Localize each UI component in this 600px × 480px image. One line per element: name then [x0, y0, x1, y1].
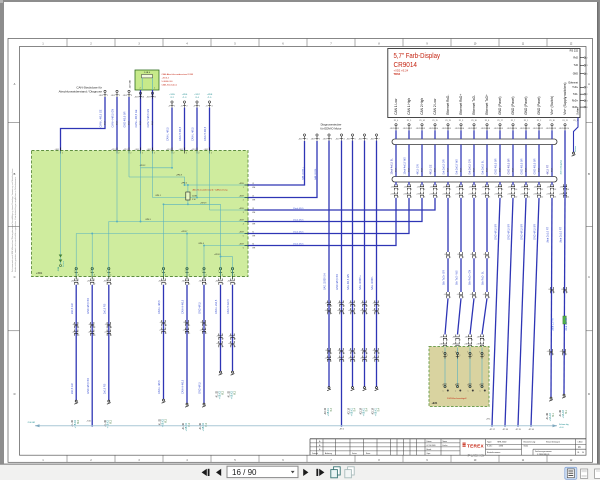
svg-text:3: 3 [199, 105, 200, 107]
svg-text:1: 1 [554, 292, 555, 294]
svg-text:2: 2 [142, 152, 143, 154]
inline connector pair 2 [360, 308, 368, 315]
svg-text:Schirm: Schirm [62, 261, 65, 267]
wire below pair col 3 [421, 197, 423, 200]
svg-text:+XP4.7: +XP4.7 [181, 231, 187, 233]
svg-text:3: 3 [331, 305, 332, 307]
svg-text:-X7.17: -X7.17 [489, 429, 495, 431]
svg-text:4/0,5: 4/0,5 [105, 121, 107, 125]
connector -XD7:2 pin [311, 134, 320, 141]
inline connector pair 4 [348, 356, 356, 363]
connector +XD5 pin [168, 101, 175, 108]
svg-text:-XD2: -XD2 [546, 128, 550, 130]
target labels [348, 407, 357, 416]
svg-text:CAN-H 4/0,5: CAN-H 4/0,5 [204, 126, 207, 141]
svg-text:4/0,5: 4/0,5 [552, 168, 554, 172]
target labels [372, 407, 381, 416]
inline connector pair 4 [337, 356, 345, 363]
ruler column ticks [67, 39, 547, 463]
svg-text:4/0,5: 4/0,5 [461, 168, 463, 172]
svg-text:2: 2 [154, 152, 155, 154]
inline connector pair col 8 [229, 334, 236, 341]
svg-text:+XD1: +XD1 [166, 149, 171, 151]
diagnostic wire col 7 [376, 141, 378, 387]
svg-text:+XD1: +XD1 [36, 272, 43, 275]
inline connector pair 2 col 2 [88, 330, 97, 337]
display lower pin pair b col 12 [533, 192, 543, 199]
svg-text:CAN-L 4/0,5: CAN-L 4/0,5 [158, 380, 161, 394]
svg-text:1 W: 1 W [192, 199, 196, 201]
svg-text:4: 4 [344, 353, 345, 355]
svg-text:+XD9: +XD9 [239, 183, 245, 185]
display pin 4 [429, 124, 438, 131]
svg-text:SAE J1939 +: SAE J1939 + [359, 275, 362, 290]
svg-text:15raf 4/0,5: 15raf 4/0,5 [293, 218, 304, 221]
svg-text:CAN 1 Low: CAN 1 Low [394, 98, 398, 115]
svg-text:+XD9: +XD9 [239, 196, 245, 198]
svg-text:-T.06: -T.06 [86, 421, 90, 423]
svg-text:4/0,5: 4/0,5 [152, 121, 154, 125]
svg-text:Eth TxD+ OR: Eth TxD+ OR [443, 270, 446, 285]
svg-text:RJ45-Buchsenabgriff: RJ45-Buchsenabgriff [447, 397, 467, 400]
svg-text:2: 2 [460, 339, 461, 341]
svg-text:CAN-H 4/0,5 GN: CAN-H 4/0,5 GN [147, 109, 150, 128]
wire end symbol [202, 403, 206, 407]
display lower pin pair b col 11 [520, 192, 530, 199]
svg-text:CAN-H 2x0,5: CAN-H 2x0,5 [227, 299, 230, 314]
svg-text:2: 2 [187, 105, 188, 107]
box top edge pins [55, 148, 212, 155]
svg-text:4: 4 [110, 274, 111, 276]
svg-text:+XD1: +XD1 [147, 149, 152, 151]
svg-text:5: 5 [355, 353, 356, 355]
svg-text:X1_7: X1_7 [511, 120, 515, 122]
svg-text:4: 4 [344, 305, 345, 307]
wire CAN bus to display 3 [248, 198, 409, 233]
svg-text:6: 6 [367, 353, 368, 355]
previous page button [216, 469, 221, 476]
svg-text:/7.4: /7.4 [365, 407, 368, 412]
bus right label [559, 424, 568, 429]
connector +XD6 pin [181, 101, 188, 108]
svg-text:CAN-L 4/0,5 GE: CAN-L 4/0,5 GE [135, 109, 138, 127]
svg-text:5: 5 [587, 74, 588, 76]
svg-text:GND 4/0,5: GND 4/0,5 [199, 382, 202, 394]
svg-text:/9.2: /9.2 [221, 390, 224, 395]
first page button [202, 469, 210, 476]
connector pair below box col 6 [199, 279, 208, 286]
svg-text:2x0,5 RS: 2x0,5 RS [103, 303, 106, 314]
svg-text:+XD1: +XD1 [191, 149, 196, 151]
svg-text:TxD: TxD [574, 64, 579, 67]
svg-text:Steuerleitungen: Steuerleitungen [546, 440, 560, 443]
svg-text:4: 4 [166, 325, 167, 327]
wire end symbol [327, 387, 331, 391]
svg-text:3: 3 [472, 339, 473, 341]
svg-text:2: 2 [130, 152, 131, 154]
inline connector pair [483, 252, 490, 259]
shield mark in box [58, 253, 65, 272]
window top-left notch [0, 0, 3, 3]
wire from terminator [152, 90, 154, 151]
svg-text:10raf 4x0,5 WS: 10raf 4x0,5 WS [404, 157, 407, 175]
svg-text:-XD1: -XD1 [111, 95, 115, 97]
connector -XD7:4 pin [335, 134, 344, 141]
svg-text:Ethernet RxD+: Ethernet RxD+ [459, 94, 463, 115]
wire below pair col 4 [434, 197, 436, 200]
svg-text:CAN-L 2x0,5: CAN-L 2x0,5 [215, 299, 218, 314]
svg-text:Ubat 2x1,0 RT: Ubat 2x1,0 RT [560, 226, 563, 243]
shield bus [35, 425, 557, 427]
svg-text:-XD7: -XD7 [298, 138, 302, 140]
svg-text:6: 6 [206, 325, 207, 327]
svg-text:7: 7 [476, 196, 477, 198]
svg-text:4: 4 [437, 128, 438, 130]
svg-text:1: 1 [174, 105, 175, 107]
svg-text:CAN-H 4/0,5: CAN-H 4/0,5 [182, 299, 185, 314]
wire CAN bus to display 4 [248, 198, 396, 245]
svg-text:-XD2: -XD2 [507, 128, 511, 130]
display pin 10 [507, 124, 517, 131]
svg-text:FUCHS: FUCHS [468, 453, 485, 458]
svg-text:4/0,5: 4/0,5 [526, 168, 528, 172]
display wire seg col 4 [434, 130, 436, 139]
terminator box -R CAN [135, 70, 159, 90]
svg-text:SAE 4/0,5 WS: SAE 4/0,5 WS [347, 274, 350, 290]
svg-text:Abschlusswiderstand / CAN-Leit: Abschlusswiderstand / CAN-Leitung [193, 189, 229, 192]
display lower pin pair col 8 [482, 184, 490, 191]
svg-text:2: 2 [62, 152, 63, 154]
target labels [360, 407, 369, 416]
supply wire 1 [551, 198, 552, 397]
connector -XD7:3 pin [323, 134, 332, 141]
svg-text:-X7.18: -X7.18 [502, 429, 508, 431]
svg-text:CR9014: CR9014 [394, 60, 418, 69]
svg-text:-XD2: -XD2 [559, 128, 563, 130]
svg-text:120R: 120R [192, 196, 197, 198]
connector +XD8 pin [206, 101, 213, 108]
distribution box internal wiring [61, 151, 249, 276]
svg-text:+XD5: +XD5 [169, 94, 175, 96]
wire below box col 8 [232, 285, 234, 371]
inline connector pair 3 [361, 348, 368, 355]
target labels [71, 419, 80, 428]
svg-text:10: 10 [515, 189, 517, 191]
display pin 1 [390, 124, 399, 131]
svg-text:-XD7: -XD7 [323, 138, 327, 140]
svg-text:D: D [14, 392, 16, 396]
svg-text:Ethernet: Ethernet [569, 82, 579, 85]
svg-text:2: 2 [587, 57, 588, 59]
svg-text:2: 2 [186, 152, 187, 154]
svg-text:b: b [344, 313, 345, 315]
svg-text:/7.4: /7.4 [353, 407, 356, 412]
svg-text:4/0,5: 4/0,5 [448, 168, 450, 172]
inline connector pair col 1 [72, 322, 79, 329]
svg-text:-XD2: -XD2 [442, 128, 446, 130]
svg-text:-XD2: -XD2 [429, 128, 433, 130]
wire below box col 5 [186, 285, 188, 403]
svg-text:1: 1 [467, 352, 468, 354]
display lower pin pair b col 2 [403, 192, 412, 199]
inline connector pair2 [483, 292, 491, 299]
svg-text:4x0,5 (Supply): 4x0,5 (Supply) [561, 160, 563, 174]
svg-text:GND 4/0,5 BR: GND 4/0,5 BR [521, 158, 524, 174]
connector pair below box col 2 [87, 279, 96, 286]
svg-text:2: 2 [154, 88, 155, 90]
svg-text:4/0,5 RT: 4/0,5 RT [547, 164, 550, 174]
olive entry pair [477, 335, 485, 342]
svg-text:7: 7 [476, 189, 477, 191]
connector pair below box col 7 [215, 279, 224, 286]
svg-text:GND 4/0,5 BR: GND 4/0,5 BR [534, 224, 537, 240]
display lower pin pair b col 6 [455, 192, 464, 199]
svg-text:1: 1 [398, 128, 399, 130]
svg-text:Bauteilnummer: Bauteilnummer [487, 451, 501, 454]
svg-text:2: 2 [319, 138, 320, 140]
svg-text:Vin+ (Switch): Vin+ (Switch) [550, 96, 554, 115]
connector -XD7:5 pin [346, 134, 355, 141]
wire below pair col 11 [525, 197, 527, 200]
svg-text:CAN 2 Low: CAN 2 Low [433, 98, 437, 115]
svg-text:+XD3.4: +XD3.4 [162, 78, 170, 80]
svg-text:-XD7: -XD7 [311, 138, 315, 140]
svg-text:1: 1 [398, 196, 399, 198]
svg-text:+XD1: +XD1 [204, 149, 209, 151]
svg-text:GND 4/0,5 BR: GND 4/0,5 BR [495, 158, 498, 174]
svg-text:c: c [331, 360, 332, 362]
svg-text:+E31: +E31 [432, 402, 438, 405]
display pin 11 [520, 124, 530, 131]
svg-text:-XD7: -XD7 [370, 138, 374, 140]
wire end symbol [74, 400, 78, 404]
wire below box col 3 [108, 285, 110, 400]
svg-text:CAN-H 4/0,5 GN: CAN-H 4/0,5 GN [112, 109, 115, 128]
svg-text:+XD2 +E.24: +XD2 +E.24 [394, 69, 409, 73]
wire to distribution box [128, 97, 130, 151]
svg-text:C: C [14, 275, 16, 279]
display lower pin pair b col 5 [442, 192, 451, 199]
svg-text:/9.2: /9.2 [164, 418, 167, 423]
svg-text:Inhalts nicht gestattet, sowei: Inhalts nicht gestattet, soweit nicht au… [14, 176, 17, 272]
svg-text:CAN 1 High: CAN 1 High [407, 98, 411, 115]
svg-text:2: 2 [94, 327, 95, 329]
svg-text:4: 4 [206, 274, 207, 276]
svg-text:GND (Panel): GND (Panel) [524, 97, 528, 115]
cable duct lower [392, 177, 557, 183]
inline connector pair [361, 301, 368, 308]
svg-text:-XD2: -XD2 [455, 128, 459, 130]
display wire col 14 bypass [564, 130, 566, 198]
svg-text:1: 1 [567, 292, 568, 294]
display wire seg col 5 [447, 130, 449, 139]
svg-text:s: s [455, 391, 456, 393]
svg-text:3: 3 [111, 283, 112, 285]
svg-text:4: 4 [489, 297, 490, 299]
svg-text:1: 1 [398, 189, 399, 191]
svg-text:Schirm: Schirm [575, 145, 577, 152]
svg-text:X1_4: X1_4 [394, 120, 398, 122]
shield end [572, 152, 576, 156]
wire end symbol [162, 399, 166, 403]
svg-text:15raf 4/0,5: 15raf 4/0,5 [293, 242, 304, 245]
svg-text:13: 13 [554, 189, 556, 191]
svg-text:2: 2 [411, 196, 412, 198]
svg-text:7: 7 [223, 283, 224, 285]
svg-text:3: 3 [111, 327, 112, 329]
display wire seg col 13 [551, 130, 553, 139]
svg-text:1: 1 [243, 187, 244, 189]
svg-text:5: 5 [450, 196, 451, 198]
bus junction [91, 425, 93, 427]
svg-text:8: 8 [235, 283, 236, 285]
TEREX FUCHS logo [463, 439, 486, 458]
svg-text:SAE J1939 -: SAE J1939 - [314, 167, 317, 180]
svg-text:-XD1: -XD1 [99, 95, 103, 97]
disclaimer note rotated [11, 169, 17, 272]
svg-text:9: 9 [502, 196, 503, 198]
svg-text:07.10.2009: 07.10.2009 [427, 445, 436, 447]
svg-text:RxD-: RxD- [573, 106, 579, 109]
svg-text:SAE J1939 +: SAE J1939 + [302, 166, 305, 180]
svg-text:X1_6: X1_6 [485, 120, 489, 122]
svg-text:4/0,5 GE: 4/0,5 GE [430, 164, 433, 174]
svg-text:6: 6 [463, 189, 464, 191]
svg-text:/9.2: /9.2 [77, 419, 80, 424]
svg-text:TEREX: TEREX [467, 443, 485, 448]
svg-text:5: 5 [450, 189, 451, 191]
svg-text:GND 4/0,5 BR: GND 4/0,5 BR [508, 224, 511, 240]
inline connector pair col 5 [183, 320, 190, 327]
svg-text:X1_13: X1_13 [445, 120, 450, 122]
title block revision table [310, 439, 586, 455]
junction labels [140, 165, 221, 256]
display lower pin pair b col 13 [546, 192, 556, 199]
svg-text:4/0,5: 4/0,5 [539, 168, 541, 172]
svg-text:1: 1 [106, 271, 107, 273]
svg-text:2: 2 [198, 152, 199, 154]
inline connector pair2 [457, 292, 465, 299]
svg-text:1: 1 [90, 271, 91, 273]
svg-text:X1_3: X1_3 [459, 120, 463, 122]
svg-text:GND 4/0,5 BR: GND 4/0,5 BR [495, 224, 498, 240]
display lower pin pair col 11 [521, 184, 530, 191]
svg-text:4: 4 [165, 274, 166, 276]
svg-text:4: 4 [166, 283, 167, 285]
display lower pin pair b col 10 [507, 192, 517, 199]
connector -XD7:6 pin [358, 134, 367, 141]
display pin 9 [494, 124, 503, 131]
svg-text:X1_2: X1_2 [537, 120, 541, 122]
connector -XD1:1 pin [99, 90, 108, 97]
inline connector pair [561, 287, 568, 294]
svg-text:1: 1 [107, 95, 108, 97]
svg-text:1.Blatt: 1.Blatt [578, 440, 583, 443]
inline connector pair [470, 252, 477, 259]
svg-text:K.-Nr.:: K.-Nr.: [487, 446, 493, 448]
wire below pair col 1 [395, 197, 397, 200]
svg-text:/7.4: /7.4 [330, 407, 333, 412]
display wire seg col 10 [512, 130, 514, 139]
inline connector pair2 [470, 292, 478, 299]
svg-text:2: 2 [463, 297, 464, 299]
inline connector pair 2 [348, 308, 356, 315]
svg-text:-T.06 GR: -T.06 GR [27, 422, 36, 424]
svg-text:2x0,5 RS: 2x0,5 RS [103, 383, 106, 394]
svg-text:5: 5 [189, 283, 190, 285]
connector -XD7:1 pin [298, 134, 307, 141]
display lower pin pair col 4 [430, 184, 438, 191]
box bottom edge pins [74, 268, 235, 280]
svg-text:1: 1 [450, 297, 451, 299]
display lower pin pair col 3 [417, 184, 425, 191]
display wire seg col 1 [395, 130, 397, 139]
svg-text:4/0,5: 4/0,5 [129, 121, 131, 125]
wire CAN jog left [61, 97, 106, 151]
svg-text:1: 1 [587, 87, 588, 89]
wire CAN diag - [248, 141, 317, 198]
wire CAN bus to display 2 [248, 198, 422, 221]
svg-text:CAN-L 4/0,5 GE: CAN-L 4/0,5 GE [100, 109, 103, 127]
svg-text:2: 2 [118, 152, 119, 154]
inline connector pair 2 col 7 [216, 341, 225, 348]
svg-text:2: 2 [173, 152, 174, 154]
wire below box col 4 [163, 285, 165, 399]
olive entry pair b [439, 342, 448, 349]
svg-text:Type:: Type: [487, 441, 492, 443]
svg-text:-XP4.5: -XP4.5 [145, 219, 151, 221]
svg-text:+XD9: +XD9 [239, 244, 245, 246]
display lower pin pair b col 7 [468, 192, 477, 199]
connector -XD7:7 pin [370, 134, 379, 141]
svg-text:5: 5 [243, 235, 244, 237]
svg-text:4: 4 [344, 138, 345, 140]
svg-text:2x0,5 GR: 2x0,5 GR [71, 383, 74, 394]
svg-text:X1_17: X1_17 [497, 120, 502, 122]
wire below pair col 8 [486, 197, 488, 200]
svg-text:12: 12 [541, 189, 543, 191]
svg-text:TxD-: TxD- [573, 93, 578, 96]
svg-text:-XD2: -XD2 [533, 128, 537, 130]
target labels [104, 419, 113, 428]
svg-text:/9.2: /9.2 [110, 419, 113, 424]
sidebar toggle active [565, 467, 577, 479]
inline connector pair col 7 [217, 334, 224, 341]
svg-text:CAN-L 4/0,5: CAN-L 4/0,5 [158, 300, 161, 314]
wire end symbol [219, 371, 223, 375]
svg-text:2: 2 [411, 128, 412, 130]
diagnostic wire col 4 [341, 141, 343, 426]
svg-text:7: 7 [476, 128, 477, 130]
wire below box col 1 [75, 285, 77, 400]
svg-text:-XD3: -XD3 [146, 97, 150, 99]
svg-text:Fuchs: Fuchs [443, 445, 448, 447]
svg-text:Gepr.: Gepr. [427, 452, 432, 455]
svg-text:c: c [355, 360, 356, 362]
display pin names [394, 83, 568, 123]
svg-text:CAN 2 High: CAN 2 High [420, 98, 424, 115]
connector -XD1:3 pin [123, 90, 132, 97]
inline connector pair 2 col 1 [72, 330, 81, 337]
svg-text:-XD2: -XD2 [481, 128, 485, 130]
svg-text:1 0B 0: 1 0B 0 [144, 72, 151, 74]
display pin 12 [533, 124, 543, 131]
svg-text:Eth TxD- WS: Eth TxD- WS [456, 270, 459, 285]
svg-text:RxD+: RxD+ [572, 99, 579, 102]
svg-text:GND: GND [573, 73, 579, 76]
svg-text:11: 11 [528, 189, 530, 191]
display unit CR9014 box [388, 49, 580, 118]
